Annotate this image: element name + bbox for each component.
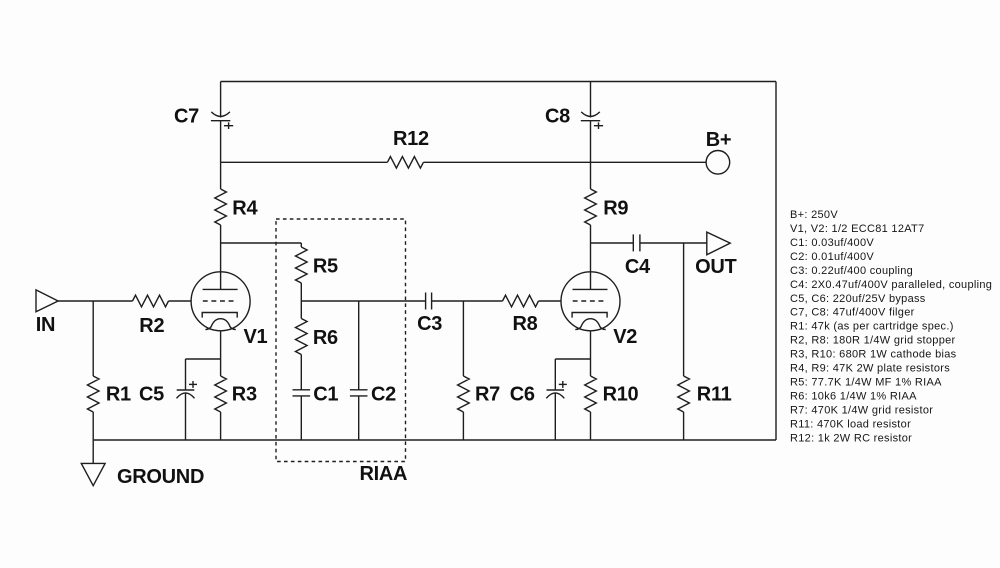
wire R12 to B+ terminal <box>423 161 706 163</box>
resistor R2 <box>133 295 169 307</box>
label R2 <box>139 315 164 337</box>
svg-text:GROUND: GROUND <box>117 466 204 488</box>
svg-text:C2: 0.01uf/400V: C2: 0.01uf/400V <box>790 251 874 263</box>
svg-text:R3: R3 <box>232 383 257 405</box>
wire top bus to C7 <box>220 82 222 118</box>
label RIAA <box>360 463 408 485</box>
wire V1 cathode down <box>220 331 222 376</box>
svg-text:C2: C2 <box>371 383 396 405</box>
svg-text:C1: C1 <box>313 383 338 405</box>
wire R1 to ground bus <box>92 412 94 440</box>
triode V1 circle <box>191 272 250 331</box>
capacitor C4 <box>633 234 640 251</box>
resistor R6 <box>296 319 308 355</box>
RIAA dashed box <box>276 219 406 462</box>
capacitor C5 <box>177 381 198 398</box>
resistor R9 <box>585 189 597 225</box>
wire output node down to R11 <box>683 243 685 376</box>
label R4 <box>232 198 258 220</box>
svg-text:V2: V2 <box>613 326 637 348</box>
wire R6 to C1 <box>300 355 302 390</box>
wire bottom ground bus <box>93 439 776 441</box>
svg-text:R6: R6 <box>313 327 338 349</box>
wire V2 plate node to C4 <box>591 242 634 244</box>
wire R11 to ground bus <box>683 412 685 440</box>
triode V2 dome <box>575 319 605 330</box>
label C5 <box>139 383 164 405</box>
label OUT <box>695 256 736 278</box>
label B+ <box>706 129 732 151</box>
wire mid node to C3 <box>301 300 425 302</box>
wire C2 to ground bus <box>358 396 360 440</box>
svg-text:R5: 77.7K 1/4W MF 1% RIAA: R5: 77.7K 1/4W MF 1% RIAA <box>790 377 942 389</box>
label C8 <box>545 105 570 127</box>
label R1 <box>106 383 131 405</box>
wire R2 to V1 grid <box>169 300 192 302</box>
svg-text:C5, C6: 220uf/25V bypass: C5, C6: 220uf/25V bypass <box>790 293 926 305</box>
capacitor C8 <box>581 112 603 129</box>
triode V2 circle <box>561 272 620 331</box>
capacitor C7 <box>211 112 233 129</box>
IN terminal triangle <box>36 290 58 312</box>
wire top ground bus <box>221 81 776 83</box>
triode V1 grid <box>203 300 237 302</box>
svg-text:C5: C5 <box>139 383 164 405</box>
wire C4 to OUT terminal <box>640 242 707 244</box>
wire R10 to ground bus <box>590 412 592 440</box>
svg-text:R2, R8: 180R 1/4W grid stopper: R2, R8: 180R 1/4W grid stopper <box>790 335 956 347</box>
wire R8 to V2 grid <box>539 300 562 302</box>
svg-text:C4: 2X0.47uf/400V paralleled,: C4: 2X0.47uf/400V paralleled, coupling <box>790 279 992 291</box>
wire B+ node to R4 <box>220 162 222 189</box>
label R6 <box>313 327 338 349</box>
wire C8 to B+ node <box>590 121 592 163</box>
svg-text:C6: C6 <box>510 383 535 405</box>
wire C7 to R12 node <box>220 121 222 163</box>
svg-text:C1: 0.03uf/400V: C1: 0.03uf/400V <box>790 237 874 249</box>
svg-text:C4: C4 <box>625 256 651 278</box>
svg-text:R9: R9 <box>603 198 628 220</box>
svg-text:R10: R10 <box>603 383 639 405</box>
label R11 <box>697 383 732 405</box>
svg-text:C7: C7 <box>174 105 199 127</box>
triode V1 plate <box>203 288 238 290</box>
wire top bus to C8 <box>590 82 592 118</box>
svg-text:V1: V1 <box>244 326 268 348</box>
wire R7 to ground bus <box>462 412 464 440</box>
svg-text:R4, R9: 47K 2W plate resistors: R4, R9: 47K 2W plate resistors <box>790 363 950 375</box>
wire R5 to mid node <box>300 283 302 301</box>
ground symbol <box>81 463 105 485</box>
capacitor C6 <box>546 381 567 398</box>
svg-text:R12: 1k 2W RC resistor: R12: 1k 2W RC resistor <box>790 432 912 444</box>
wire cathode jog to C6 <box>555 358 590 360</box>
svg-text:C7, C8: 47uf/400V filger: C7, C8: 47uf/400V filger <box>790 307 915 319</box>
wire ground bus to ground symbol <box>92 440 94 463</box>
wire mid node down to C2 <box>358 301 360 390</box>
capacitor C3 <box>426 293 432 310</box>
wire C5 to ground bus <box>185 394 187 441</box>
triode V2 grid <box>573 300 607 302</box>
label R12 <box>393 128 429 150</box>
label C3 <box>417 313 442 335</box>
label R8 <box>513 313 538 335</box>
svg-text:R1: 47k (as per cartridge spec: R1: 47k (as per cartridge spec.) <box>790 321 954 333</box>
svg-text:R6: 10k6 1/4W 1% RIAA: R6: 10k6 1/4W 1% RIAA <box>790 391 917 403</box>
label IN <box>36 314 55 336</box>
wire R12 node to R12 <box>221 161 388 163</box>
svg-text:C3: C3 <box>417 313 442 335</box>
label R9 <box>603 198 628 220</box>
wire R3 to ground bus <box>220 412 222 440</box>
label R3 <box>232 383 257 405</box>
wire down to R5 <box>300 243 302 247</box>
resistor R10 <box>585 376 597 412</box>
svg-text:R2: R2 <box>139 315 164 337</box>
svg-text:V1, V2: 1/2 ECC81 12AT7: V1, V2: 1/2 ECC81 12AT7 <box>790 223 925 235</box>
resistor R3 <box>215 376 227 412</box>
svg-text:RIAA: RIAA <box>360 463 408 485</box>
resistor R11 <box>678 376 690 412</box>
parts list text <box>790 209 992 444</box>
B+ terminal circle <box>706 151 730 175</box>
wire jog down to C5 <box>185 359 187 390</box>
triode V1 dome <box>205 319 235 330</box>
svg-text:R4: R4 <box>232 198 258 220</box>
wire cathode jog to C5 <box>186 358 221 360</box>
svg-text:R11: R11 <box>697 383 732 405</box>
wire grid node down to R7 <box>462 301 464 376</box>
label C7 <box>174 105 199 127</box>
svg-text:R7: 470K 1/4W grid resistor: R7: 470K 1/4W grid resistor <box>790 404 933 416</box>
svg-text:C8: C8 <box>545 105 570 127</box>
resistor R4 <box>215 189 227 225</box>
svg-text:R1: R1 <box>106 383 131 405</box>
triode V2 plate <box>573 288 608 290</box>
label R10 <box>603 383 639 405</box>
wire IN to R2 <box>58 300 132 302</box>
wire C1 to ground bus <box>300 396 302 440</box>
svg-text:R7: R7 <box>475 383 500 405</box>
resistor R8 <box>503 295 539 307</box>
triode V1 cathode <box>202 313 237 318</box>
wire C3 to R8 <box>432 300 503 302</box>
label C2 <box>371 383 396 405</box>
wire R9 to V2 plate <box>590 225 592 289</box>
svg-text:R8: R8 <box>513 313 538 335</box>
capacitor C2 <box>350 390 368 396</box>
wire R4 to V1 plate <box>220 225 222 289</box>
label GROUND <box>117 466 204 488</box>
resistor R1 <box>87 376 99 412</box>
svg-text:B+: 250V: B+: 250V <box>790 209 838 221</box>
label C4 <box>625 256 651 278</box>
svg-text:R11: 470K load resistor: R11: 470K load resistor <box>790 418 911 430</box>
label R5 <box>313 255 338 277</box>
OUT terminal triangle <box>707 232 730 255</box>
resistor R12 <box>387 157 423 169</box>
wire mid node to R6 <box>300 301 302 319</box>
svg-text:C3: 0.22uf/400 coupling: C3: 0.22uf/400 coupling <box>790 265 913 277</box>
svg-text:R5: R5 <box>313 255 338 277</box>
svg-text:B+: B+ <box>706 129 732 151</box>
wire C6 to ground bus <box>554 394 556 441</box>
triode V2 cathode <box>572 313 607 318</box>
label R7 <box>475 383 500 405</box>
label V1 <box>244 326 268 348</box>
resistor R7 <box>458 376 470 412</box>
svg-text:R12: R12 <box>393 128 429 150</box>
wire V2 cathode down <box>590 331 592 376</box>
svg-text:R3, R10: 680R 1W cathode bias: R3, R10: 680R 1W cathode bias <box>790 349 957 361</box>
wire right ground bus <box>775 82 777 441</box>
resistor R5 <box>296 247 308 283</box>
wire input node to R1 <box>92 301 94 376</box>
wire B+ node to R9 <box>590 162 592 189</box>
label V2 <box>613 326 637 348</box>
wire jog down to C6 <box>554 359 556 390</box>
label C1 <box>313 383 338 405</box>
label C6 <box>510 383 535 405</box>
wire V1 plate node to R5 <box>221 242 302 244</box>
svg-text:IN: IN <box>36 314 55 336</box>
svg-text:OUT: OUT <box>695 256 736 278</box>
capacitor C1 <box>293 390 311 396</box>
